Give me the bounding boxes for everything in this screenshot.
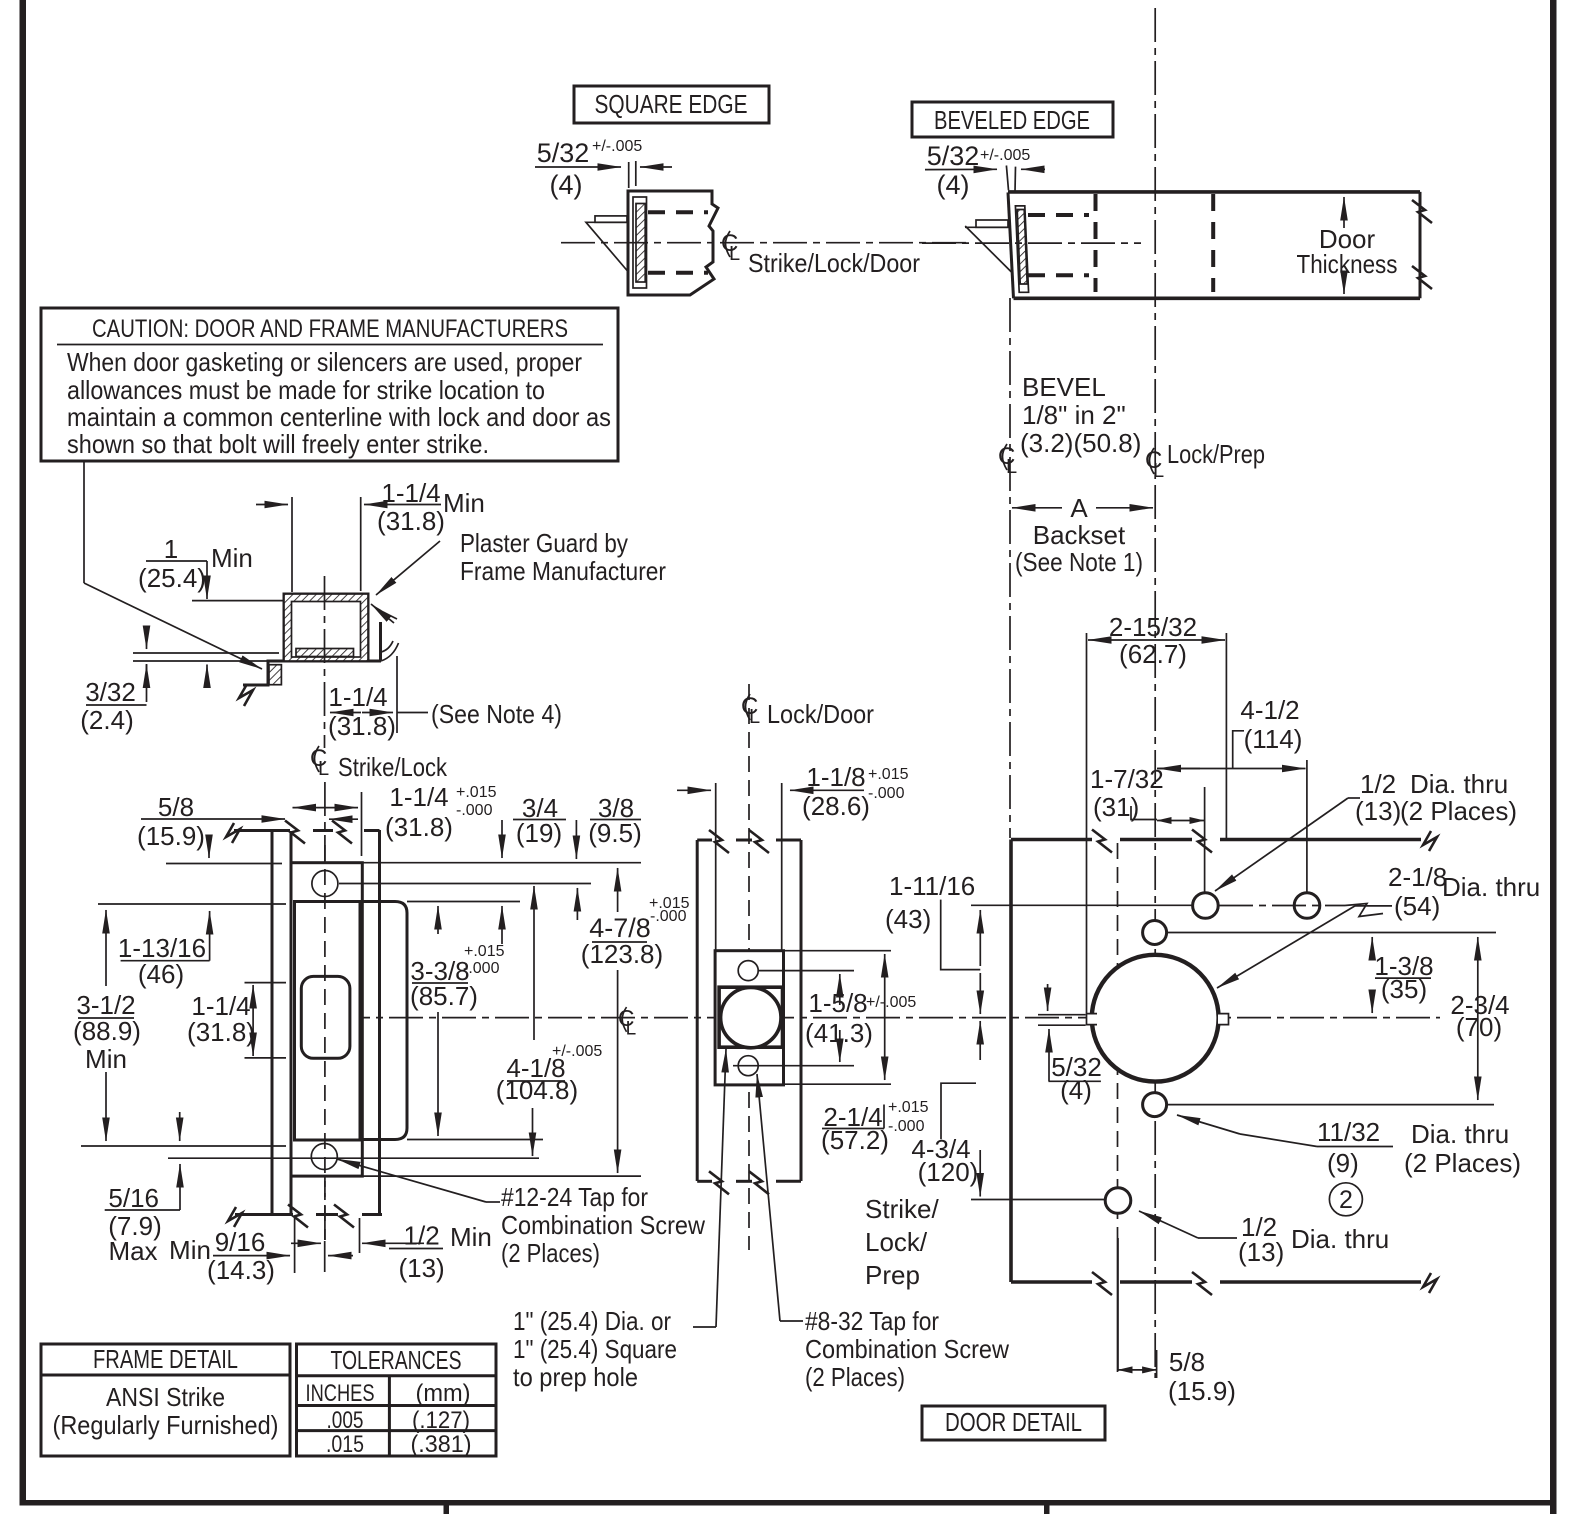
svg-text:(.127): (.127) [412, 1407, 470, 1434]
beveled edge strike lip triangle [965, 226, 1008, 228]
frame detail table [41, 1344, 290, 1456]
square edge mortise hidden lines [648, 210, 708, 214]
svg-text:1: 1 [164, 534, 178, 564]
frame return clip right of guard [368, 660, 381, 663]
svg-text:1-1/4: 1-1/4 [381, 478, 440, 508]
svg-text:Min: Min [443, 488, 485, 518]
beveled edge label box [912, 102, 1113, 137]
dimension 2-3/4 (70) [1477, 937, 1479, 1100]
dimension 3/32 (2.4) [133, 652, 279, 654]
strike box outline [290, 831, 293, 1214]
svg-text:(57.2): (57.2) [821, 1125, 889, 1155]
svg-text:(See Note 4): (See Note 4) [431, 699, 562, 729]
footer cell divider right [1044, 1505, 1050, 1514]
svg-text:maintain a common centerline w: maintain a common centerline with lock a… [67, 402, 611, 432]
svg-text:(9.5): (9.5) [588, 818, 641, 848]
svg-text:1-1/4: 1-1/4 [389, 782, 448, 812]
square edge label box [574, 86, 769, 123]
strike screw bottom [311, 1144, 337, 1170]
svg-text:Combination Screw: Combination Screw [805, 1334, 1009, 1364]
prep square [719, 987, 782, 1047]
svg-text:1/2: 1/2 [1360, 769, 1396, 799]
svg-text:Plaster Guard by: Plaster Guard by [460, 528, 628, 558]
dimension 5/8 (15.9) door [1117, 1238, 1119, 1371]
svg-text:4-1/2: 4-1/2 [1240, 695, 1299, 725]
svg-text:.005: .005 [327, 1407, 364, 1434]
svg-text:Strike/Lock/Door: Strike/Lock/Door [748, 248, 920, 278]
frame lip hatched block [269, 665, 281, 685]
square edge door section outline [628, 191, 718, 295]
prep plate extension lines [783, 950, 891, 952]
latch bolt opening [301, 976, 350, 1058]
svg-text:(88.9): (88.9) [73, 1016, 141, 1046]
dimension 4-3/4 (120) [941, 1083, 976, 1139]
svg-text:DOOR DETAIL: DOOR DETAIL [945, 1407, 1082, 1437]
svg-text:INCHES: INCHES [306, 1380, 375, 1407]
svg-text:(31): (31) [1093, 792, 1139, 822]
square edge faceplate [633, 197, 647, 288]
svg-text:Frame Manufacturer: Frame Manufacturer [460, 556, 666, 586]
svg-text:+/-.005: +/-.005 [866, 994, 916, 1011]
leader from caution box to plaster guard lip [83, 462, 85, 583]
svg-text:-.000: -.000 [888, 1118, 925, 1135]
svg-text:5/32: 5/32 [927, 141, 980, 171]
svg-text:2-15/32: 2-15/32 [1109, 612, 1197, 642]
dimension 2-1/4 +.015 -.000 (57.2) [884, 954, 886, 1080]
dimension A backset [1012, 507, 1062, 509]
svg-text:+/-.005: +/-.005 [592, 138, 642, 155]
centerline symbol lock/prep [1145, 447, 1164, 482]
strike box top edge with breaks [234, 829, 290, 832]
svg-text:BEVELED EDGE: BEVELED EDGE [934, 105, 1090, 135]
svg-text:(70): (70) [1456, 1012, 1502, 1042]
svg-text:to prep hole: to prep hole [513, 1362, 638, 1392]
beveled edge faceplate [1015, 206, 1028, 292]
svg-text:(31.8): (31.8) [377, 506, 445, 536]
horizontal centerline through lock height [336, 1017, 1440, 1019]
svg-text:L: L [749, 706, 760, 728]
svg-text:L: L [626, 1019, 637, 1040]
prep screw bottom [738, 1056, 758, 1076]
svg-text:1/2: 1/2 [404, 1221, 440, 1251]
svg-text:(120): (120) [918, 1157, 979, 1187]
leader to #8-32 note [757, 1074, 780, 1321]
svg-text:(43): (43) [885, 904, 931, 934]
strike plate inner raised rect [295, 902, 361, 1141]
svg-text:+.015: +.015 [868, 766, 909, 783]
svg-text:+.015: +.015 [456, 784, 497, 801]
svg-text:L: L [729, 243, 740, 265]
svg-text:#8-32 Tap for: #8-32 Tap for [805, 1306, 939, 1336]
door detail top edge [1011, 838, 1092, 842]
svg-text:3/32: 3/32 [85, 677, 136, 707]
guard centerline vertical [324, 576, 326, 748]
beveled edge mortise hidden lines [1028, 213, 1089, 217]
svg-text:shown so that bolt will freely: shown so that bolt will freely enter str… [67, 429, 489, 459]
lower half-inch hole [1105, 1188, 1131, 1214]
strike view centerline vertical [324, 782, 326, 1241]
strike plate top extension line [362, 862, 641, 864]
svg-text:(.381): (.381) [411, 1431, 472, 1458]
note #12-24 tap leader [337, 1159, 486, 1202]
upper half-inch hole right [1294, 893, 1320, 919]
leader to prep hole note [716, 1049, 726, 1327]
line through half-inch holes [971, 904, 1193, 906]
svg-text:(31.8): (31.8) [385, 812, 453, 842]
svg-text:(2 Places): (2 Places) [805, 1362, 905, 1392]
svg-text:(62.7): (62.7) [1119, 639, 1187, 669]
svg-text:-.000: -.000 [650, 908, 687, 925]
svg-text:2: 2 [1339, 1186, 1353, 1214]
dimension 1/2 (13) Min strike [291, 1242, 321, 1244]
svg-text:5/32: 5/32 [537, 138, 590, 168]
line through lower 11/32 hole [1167, 1104, 1494, 1106]
dimension 1-3/8 (35) [1371, 937, 1373, 960]
svg-text:1-7/32: 1-7/32 [1090, 764, 1164, 794]
svg-text:(2 Places): (2 Places) [1400, 796, 1517, 826]
strike bottom extension verticals [294, 1218, 296, 1273]
svg-text:2-1/8: 2-1/8 [1388, 862, 1447, 892]
prep screw top [738, 961, 758, 981]
svg-text:Lock/Prep: Lock/Prep [1167, 439, 1265, 469]
svg-text:Min: Min [169, 1235, 211, 1265]
svg-text:Prep: Prep [865, 1260, 920, 1290]
bore left notch [1087, 1013, 1098, 1025]
svg-text:Lock/: Lock/ [865, 1227, 928, 1257]
prep circle [721, 987, 781, 1047]
svg-text:(123.8): (123.8) [581, 939, 663, 969]
svg-text:+.015: +.015 [464, 943, 505, 960]
circled note 2 [1329, 1183, 1362, 1216]
line through upper 11/32 hole [1167, 932, 1496, 934]
strike plate bottom extension line [362, 1175, 641, 1177]
svg-text:(4): (4) [550, 170, 583, 200]
svg-text:Dia. thru: Dia. thru [1410, 769, 1508, 799]
svg-text:1-5/8: 1-5/8 [808, 988, 867, 1018]
svg-text:(mm): (mm) [416, 1380, 471, 1407]
svg-text:(9): (9) [1327, 1148, 1359, 1178]
svg-text:(2 Places): (2 Places) [501, 1238, 600, 1268]
svg-text:ANSI Strike: ANSI Strike [106, 1382, 225, 1412]
centerline symbol on lock height line [618, 1005, 636, 1040]
door strip top edge with breaks [697, 839, 712, 842]
svg-text:(15.9): (15.9) [1168, 1376, 1236, 1406]
svg-text:Combination Screw: Combination Screw [501, 1210, 705, 1240]
door detail left edge [1009, 840, 1013, 1283]
svg-text:(25.4): (25.4) [138, 563, 206, 593]
centerline CL strike/lock/door vertical [1009, 298, 1011, 838]
svg-text:-.000: -.000 [456, 802, 493, 819]
strike plate vertical centerline dash [324, 845, 326, 1240]
svg-text:CAUTION: DOOR AND FRAME MANUFA: CAUTION: DOOR AND FRAME MANUFACTURERS [92, 315, 568, 343]
footer cell divider left [444, 1505, 450, 1514]
svg-text:(104.8): (104.8) [496, 1075, 578, 1105]
beveled edge door section outline [1008, 190, 1420, 194]
lip bottom extension line [407, 1139, 543, 1141]
svg-text:(46): (46) [138, 959, 184, 989]
svg-text:(14.3): (14.3) [207, 1255, 275, 1285]
svg-text:1-1/8: 1-1/8 [806, 762, 865, 792]
svg-text:allowances must be made for st: allowances must be made for strike locat… [67, 375, 545, 405]
upper 11/32 hole [1143, 921, 1167, 945]
upper half-inch hole left [1193, 893, 1219, 919]
centerline symbol strike/lock/door [721, 230, 740, 265]
svg-text:-.000: -.000 [868, 785, 905, 802]
svg-text:.015: .015 [326, 1431, 364, 1458]
strike screw top [312, 871, 338, 897]
svg-text:(2.4): (2.4) [80, 705, 133, 735]
caution note box [41, 308, 618, 461]
svg-text:Min: Min [211, 543, 253, 573]
svg-text:When door gasketing or silence: When door gasketing or silencers are use… [67, 347, 582, 377]
svg-text:Backset: Backset [1033, 520, 1126, 550]
svg-text:L: L [1006, 456, 1017, 478]
svg-text:(2 Places): (2 Places) [1404, 1148, 1521, 1178]
beveled edge strike lip bar [976, 220, 1008, 227]
svg-text:(31.8): (31.8) [187, 1017, 255, 1047]
svg-text:1" (25.4) Dia. or: 1" (25.4) Dia. or [513, 1306, 671, 1336]
svg-text:Lock/Door: Lock/Door [767, 699, 874, 729]
svg-text:Min: Min [85, 1044, 127, 1074]
centerline strike/lock/door [561, 242, 966, 244]
centerline lock/door label [741, 693, 760, 728]
dimension 5/32 (4) door bore offset [1038, 1014, 1086, 1016]
left extension line upper [98, 903, 286, 905]
svg-text:5/8: 5/8 [1169, 1347, 1205, 1377]
plaster guard inner bar [296, 649, 354, 657]
lock prep faceplate [715, 951, 783, 1085]
lip top extension line [407, 901, 520, 903]
svg-text:L: L [318, 758, 329, 780]
bottom screw extension line [168, 1157, 539, 1159]
svg-text:1-1/4: 1-1/4 [328, 682, 387, 712]
svg-text:#12-24 Tap for: #12-24 Tap for [501, 1182, 648, 1212]
lower 11/32 hole [1143, 1093, 1167, 1117]
big bore circle 2-1/8 [1092, 955, 1219, 1082]
square edge strike lip triangle [586, 222, 628, 271]
svg-text:5/16: 5/16 [108, 1183, 159, 1213]
svg-text:(15.9): (15.9) [137, 821, 205, 851]
svg-text:BEVEL: BEVEL [1022, 372, 1106, 402]
svg-text:(85.7): (85.7) [410, 981, 478, 1011]
svg-text:Max: Max [108, 1236, 157, 1266]
svg-text:(4): (4) [937, 170, 970, 200]
tolerances table [297, 1344, 497, 1456]
svg-text:(35): (35) [1381, 974, 1427, 1004]
svg-text:Dia. thru: Dia. thru [1291, 1224, 1389, 1254]
svg-text:Strike/: Strike/ [865, 1194, 939, 1224]
svg-text:Dia. thru: Dia. thru [1442, 872, 1540, 902]
bore right notch [1218, 1013, 1229, 1025]
svg-text:11/32: 11/32 [1317, 1117, 1380, 1147]
strike lip rounded flange [360, 902, 407, 1140]
svg-text:(See Note 1): (See Note 1) [1015, 547, 1143, 577]
left bottom extension line [81, 1145, 286, 1147]
svg-text:(114): (114) [1244, 724, 1303, 754]
svg-text:(4): (4) [1060, 1075, 1092, 1105]
svg-text:SQUARE EDGE: SQUARE EDGE [595, 89, 748, 119]
dimension 3-1/2 (88.9) Min [105, 910, 107, 986]
svg-text:(13): (13) [398, 1253, 444, 1283]
plaster guard box [284, 594, 368, 661]
svg-text:(13): (13) [1238, 1237, 1284, 1267]
svg-text:9/16: 9/16 [215, 1227, 266, 1257]
centerline strike/lock label [310, 745, 329, 780]
svg-text:(3.2)(50.8): (3.2)(50.8) [1020, 428, 1141, 458]
svg-text:(13): (13) [1355, 796, 1401, 826]
frame jamb edge line [271, 831, 274, 1214]
svg-text:FRAME DETAIL: FRAME DETAIL [93, 1344, 238, 1374]
page bottom border [20, 1500, 1557, 1506]
svg-text:+/-.005: +/-.005 [980, 147, 1030, 164]
square edge strike lip bar [595, 216, 627, 222]
svg-text:A: A [1070, 493, 1088, 523]
svg-text:1" (25.4) Square: 1" (25.4) Square [513, 1334, 677, 1364]
svg-text:L: L [1153, 460, 1164, 482]
door edge strip outline [696, 840, 699, 1181]
door strip bottom edge with breaks [697, 1180, 712, 1183]
strike plate outline [291, 863, 362, 1176]
svg-text:(19): (19) [516, 818, 562, 848]
svg-text:Min: Min [450, 1222, 492, 1252]
lock/door centerline vertical dash [748, 684, 750, 1250]
frame step terminal jag [239, 684, 253, 706]
line through lower half-inch hole [971, 1199, 1105, 1201]
svg-text:5/8: 5/8 [158, 792, 194, 822]
svg-text:1/8" in 2": 1/8" in 2" [1022, 400, 1126, 430]
svg-text:(Regularly Furnished): (Regularly Furnished) [53, 1410, 279, 1440]
strike box bottom edge with breaks [235, 1213, 293, 1216]
page left border [20, 0, 27, 1503]
svg-text:1-11/16: 1-11/16 [889, 871, 975, 901]
centerline symbol left [998, 443, 1017, 478]
svg-text:+/-.005: +/-.005 [552, 1043, 602, 1060]
svg-text:Dia. thru: Dia. thru [1411, 1119, 1509, 1149]
centerline through beveled lip [922, 242, 1141, 244]
svg-text:-.000: -.000 [463, 960, 500, 977]
top screw center extension line [339, 883, 591, 885]
frame lip step profile [243, 661, 284, 685]
centerline CL lock/prep vertical [1154, 8, 1156, 1378]
svg-text:(31.8): (31.8) [328, 711, 396, 741]
strike prep centerline dashed vertical [1117, 843, 1119, 1237]
svg-text:(28.6): (28.6) [802, 791, 870, 821]
svg-text:TOLERANCES: TOLERANCES [331, 1345, 462, 1375]
page right border [1550, 0, 1557, 1514]
svg-text:(54): (54) [1394, 891, 1440, 921]
svg-text:+.015: +.015 [888, 1099, 929, 1116]
beveled door right break edge [1419, 192, 1422, 298]
door detail label box [922, 1406, 1105, 1440]
svg-text:Thickness: Thickness [1297, 249, 1398, 279]
door detail bottom edge [1011, 1280, 1092, 1284]
dimension 5/16 (7.9) Max [179, 1164, 181, 1210]
svg-text:Strike/Lock: Strike/Lock [338, 752, 448, 782]
